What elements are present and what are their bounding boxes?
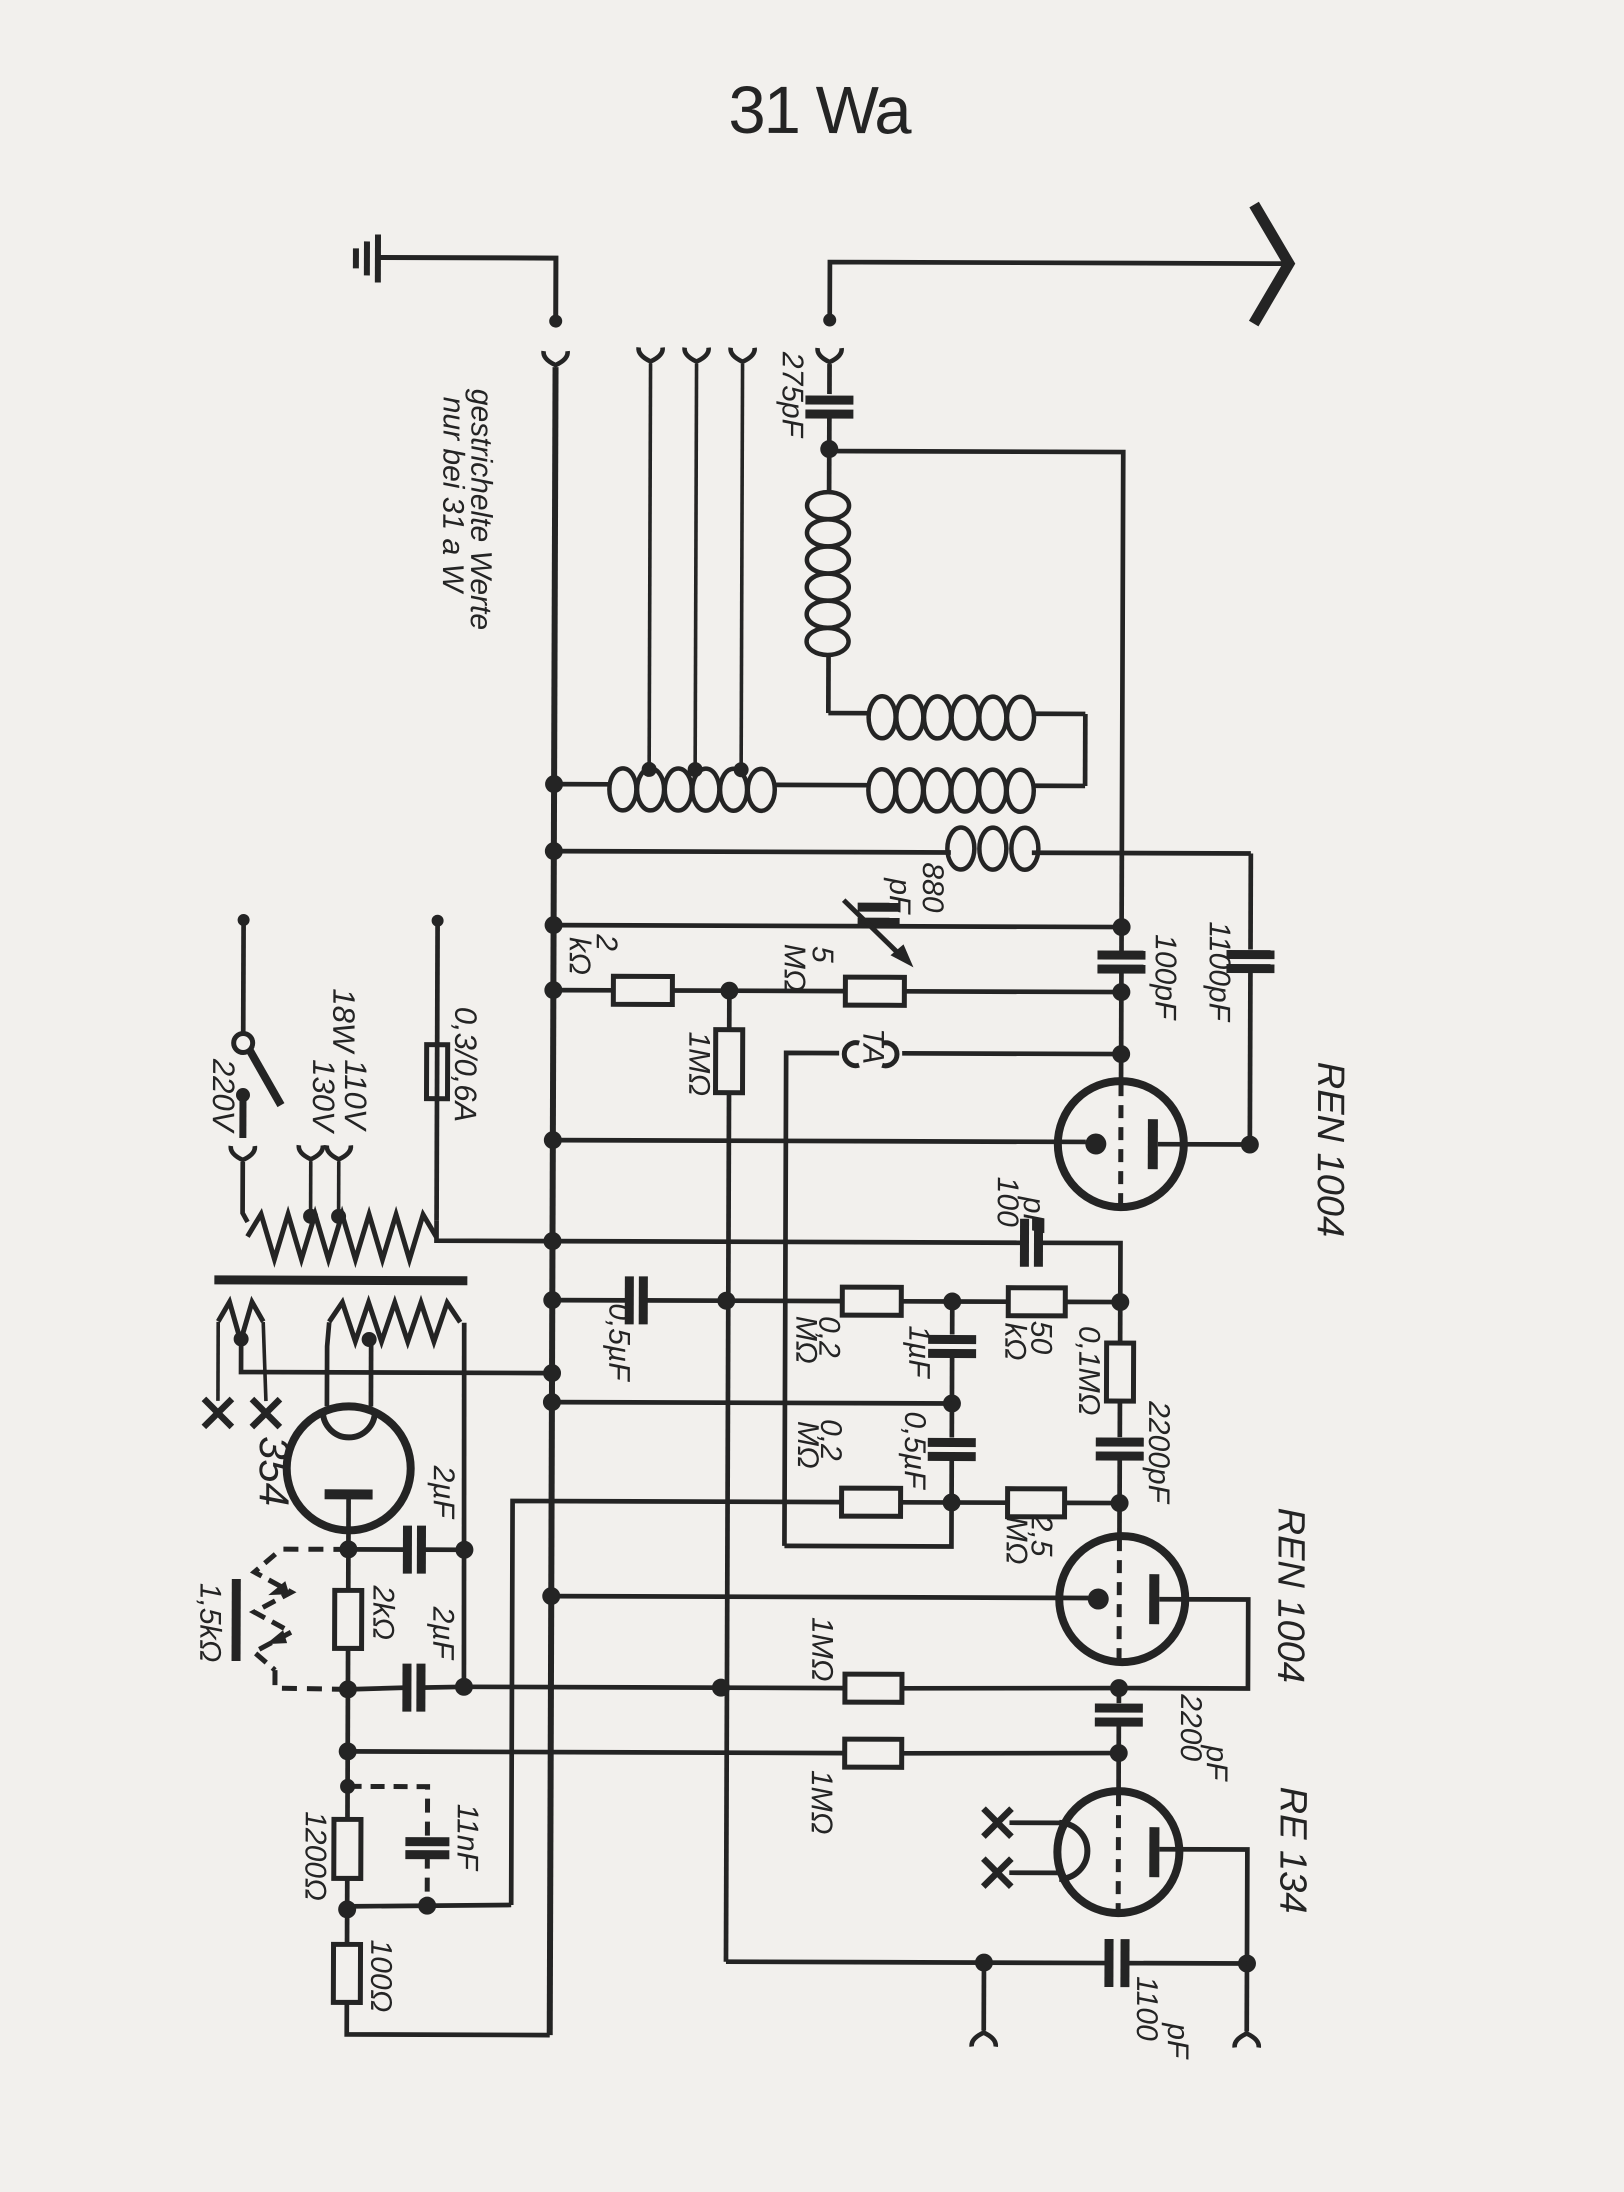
tap nodes on winding A [642, 762, 657, 777]
node bus-primary [543, 1232, 561, 1250]
svg-text:0,5µF: 0,5µF [602, 1303, 635, 1382]
node 11nF dashed tap [340, 1779, 355, 1794]
node bias rail row1 [717, 1292, 735, 1310]
svg-text:11nF: 11nF [450, 1804, 483, 1872]
grid dashed line tube V2 [1117, 1538, 1122, 1660]
wire 11nF row to row3 riser [347, 1904, 511, 1907]
node bus-cathode row V1 [544, 1131, 562, 1149]
resistor R 1M to V2 grid node [845, 1674, 902, 1702]
capacitor C 2200pF interstage [1117, 1401, 1122, 1437]
svg-text:1µF: 1µF [902, 1325, 935, 1379]
resistor R 2.5M grid2 leak [1008, 1489, 1065, 1517]
wire HV right end down rail [463, 1323, 465, 1688]
svg-text:pF: pF [1161, 2022, 1194, 2060]
coil L4 winding C [868, 769, 895, 811]
wire 5M to grid line [904, 989, 1121, 994]
svg-text:100pF: 100pF [1148, 934, 1181, 1021]
node divider mid [339, 1680, 357, 1698]
X mark filament a [983, 1809, 1011, 1837]
capacitor C 1uF vertical [950, 1301, 955, 1334]
svg-text:0,3/0,6A: 0,3/0,6A [448, 1007, 483, 1123]
svg-text:RE 134: RE 134 [1271, 1787, 1313, 1914]
grid dashed line tube V1 [1118, 1083, 1123, 1205]
wire 2k to 1M junction [672, 988, 729, 993]
svg-text:1,5kΩ: 1,5kΩ [193, 1583, 226, 1663]
node bus-gridleak row [544, 981, 562, 999]
wire 0.2M to 1uF node [901, 1299, 952, 1304]
wire output row to 1100pF [984, 1960, 1109, 1965]
filament loop tube V3 [1059, 1823, 1087, 1879]
resistor R 1M output grid [845, 1739, 902, 1767]
wire TA riser bottom L [784, 1502, 951, 1547]
wire 1M-c to grid3 [902, 1752, 1119, 1754]
mains switch [238, 914, 250, 926]
svg-text:pF: pF [1200, 1744, 1233, 1782]
wire 100pF to divider corner [1038, 1243, 1120, 1302]
svg-text:MΩ: MΩ [778, 944, 811, 992]
antenna wire to 275pF branch [830, 262, 1283, 320]
transformer primary winding zigzag [247, 1214, 436, 1260]
node antenna-coil junction [820, 440, 838, 458]
resistor R 0.2M row1 [842, 1287, 901, 1315]
svg-text:2µF: 2µF [426, 1606, 459, 1661]
wire cathode row V2 [551, 1596, 1088, 1598]
svg-text:1MΩ: 1MΩ [682, 1032, 715, 1097]
wire divider node to grid3 row [345, 1689, 350, 1751]
grid dashed line tube V3 [1116, 1793, 1121, 1910]
wire to 5M resistor [729, 988, 845, 993]
transformer HV winding zigzag [329, 1302, 460, 1341]
svg-text:MΩ: MΩ [791, 1421, 824, 1469]
svg-text:MΩ: MΩ [789, 1316, 822, 1364]
svg-text:130V: 130V [306, 1059, 341, 1135]
svg-text:100Ω: 100Ω [364, 1939, 397, 2012]
wire TA to grid line [902, 1051, 1121, 1056]
node grid3 bias tap [339, 1742, 357, 1760]
node row3-0.5uF [943, 1493, 961, 1511]
svg-text:1200Ω: 1200Ω [298, 1811, 331, 1901]
wire to 50k [952, 1299, 1008, 1304]
X mark filament b [983, 1859, 1011, 1887]
node bus-winding A [545, 775, 563, 793]
node bus-feedback row [545, 842, 563, 860]
wire 100pF row left [552, 1241, 1024, 1243]
cathode dot tube V1 [1085, 1133, 1106, 1154]
resistor R 1M vertical [727, 991, 732, 1030]
wire heater CT to bus [241, 1339, 552, 1373]
svg-text:880: 880 [916, 862, 949, 912]
svg-text:0,5µF: 0,5µF [898, 1411, 931, 1490]
node grid3 [1110, 1744, 1128, 1762]
svg-text:110V: 110V [338, 1059, 373, 1133]
anode bar tube V1 [1148, 1119, 1158, 1169]
antenna tap terminal hooks [638, 347, 662, 361]
node grid leak junction [1112, 983, 1130, 1001]
anode bar tube V3 [1149, 1827, 1159, 1877]
wire fuse to primary right [434, 1099, 439, 1221]
TA pickup connector [844, 1043, 859, 1066]
node bus-heater CT [543, 1364, 561, 1382]
node row2-1uF [943, 1394, 961, 1412]
antenna connector break [823, 314, 836, 327]
main earth bus wire (vertical) [550, 367, 556, 2035]
wire bias rail corner to output row [726, 1959, 984, 1965]
svg-text:pF: pF [1017, 1196, 1050, 1234]
resistor R 1200 ohm bias [345, 1786, 350, 1819]
node 0.1M top [1111, 1293, 1129, 1311]
wire output terminal right [1244, 1964, 1249, 2032]
wire feedback row right to 1100pF corner [1032, 850, 1251, 855]
wire 50k to 0.1M node [1065, 1300, 1120, 1305]
capacitor C 1100pF output tone [1104, 1939, 1113, 1987]
tube V2 REN1004 AF amplifier [1059, 1536, 1185, 1662]
tube V1 REN1004 detector triode [1058, 1081, 1184, 1207]
wire switch to primary left [243, 1162, 248, 1222]
svg-text:2µF: 2µF [427, 1465, 460, 1520]
coil L2 winding B (secondary top) [828, 711, 868, 716]
svg-text:1100: 1100 [1130, 1976, 1163, 2041]
grid stub tube V2 [1117, 1503, 1122, 1536]
svg-text:220V: 220V [206, 1058, 241, 1135]
resistor R 100 ohm [345, 1909, 350, 1944]
capacitor C 1100pF feedback coupling [1248, 854, 1253, 950]
anode bar tube V2 [1149, 1574, 1159, 1624]
wire 0.5uF to junction [643, 1298, 726, 1303]
node bus-100pF row [543, 1232, 561, 1250]
coil L5 feedback winding 3 loops [947, 827, 974, 869]
resistor R 0.1M vertical [1118, 1302, 1123, 1343]
resistor R 50k [1008, 1288, 1065, 1316]
grid line vertical (tank node) [1119, 853, 1124, 951]
svg-text:TA: TA [856, 1028, 889, 1064]
wire ground to bus corner [378, 257, 556, 319]
filament stub wires V3 [1009, 1820, 1060, 1825]
node output-anode [1238, 1954, 1256, 1972]
wire winding A to winding C [775, 783, 868, 788]
svg-text:354: 354 [251, 1436, 298, 1506]
filament arc tube V4 [323, 1411, 375, 1437]
capacitor C 275pF antenna series [827, 364, 832, 394]
wire 1M down (bias rail) [726, 1093, 729, 1962]
resistor R 2k bias divider [346, 1549, 351, 1590]
capacitor C 100pF grid condenser [1097, 950, 1145, 959]
capacitor C 11nF dashed (31aW only) [347, 1786, 427, 1836]
variable capacitor C 880pF tuning [858, 903, 900, 912]
HV winding tap node [362, 1332, 377, 1347]
wire row3 mid [901, 1500, 1008, 1505]
antenna arrow symbol [1254, 205, 1289, 324]
node bus-880pF row [545, 916, 563, 934]
heater winding small zigzag [218, 1302, 263, 1341]
wire grid3 bias row [347, 1751, 845, 1753]
capacitor C 0.5uF decoupling [625, 1276, 634, 1324]
wire 2.5M to grid2 node [1065, 1501, 1120, 1506]
wire divider continues [345, 1751, 350, 1786]
heater center tap node [234, 1331, 249, 1346]
svg-text:kΩ: kΩ [998, 1323, 1031, 1361]
node grid2 [1111, 1494, 1129, 1512]
wire small winding right to X [263, 1322, 266, 1401]
wire HV tap to rectifier filament [369, 1339, 374, 1406]
node 11nF bottom [418, 1897, 436, 1915]
wire row3 left corner [511, 1501, 841, 1906]
node bus-row2 [543, 1393, 561, 1411]
ground symbol (Erde) [375, 234, 381, 282]
wire anode V1 to 1100pF node [1158, 1142, 1250, 1147]
cathode dot tube V2 [1088, 1588, 1109, 1609]
capacitor C 100pF cathode [1020, 1219, 1029, 1267]
wire 880pF row [554, 925, 1122, 927]
coil L1 vertical antenna winding [827, 449, 832, 492]
svg-text:1MΩ: 1MΩ [805, 1770, 838, 1835]
resistor R 5M grid leak [845, 977, 904, 1005]
node anode V1 - 1100pF [1241, 1135, 1259, 1153]
wire feedback row left [554, 851, 951, 852]
svg-text:pF: pF [883, 877, 916, 915]
wire row1 left to 0.5uF [552, 1298, 629, 1303]
wire small winding left to X [216, 1322, 220, 1401]
X mark rectifier filament b [252, 1399, 280, 1427]
wire primary right to bus [436, 1221, 552, 1241]
potentiometer arrows [268, 1581, 289, 1595]
wire row1 to 0.2M [726, 1298, 842, 1303]
grid stub tube V3 [1116, 1753, 1121, 1793]
node bus-row1 [543, 1291, 561, 1309]
potentiometer slider bar [232, 1579, 241, 1661]
bus connector break (plug) [549, 315, 562, 328]
node output row - terminal [975, 1954, 993, 1972]
tube V4 rectifier 354 [286, 1406, 410, 1530]
wire coil junction to grid line top [828, 451, 1123, 853]
svg-text:0,1MΩ: 0,1MΩ [1072, 1326, 1105, 1416]
wire gridleak row left [553, 988, 613, 993]
output terminal hook right [1235, 2033, 1259, 2047]
primary tap 130V [303, 1209, 318, 1224]
wire HV left end to rectifier filament [327, 1322, 329, 1406]
svg-text:275pF: 275pF [775, 351, 808, 439]
wire anode V3 to output node [1159, 1849, 1247, 1963]
output terminal hook left [972, 2033, 996, 2047]
node B+ tap [338, 1900, 356, 1918]
wire 1100pF to anode node [1123, 1961, 1247, 1966]
svg-text:2200pF: 2200pF [1142, 1400, 1175, 1505]
wire 1M-b to 2200 top node [902, 1687, 1119, 1689]
svg-text:31 Wa: 31 Wa [728, 73, 912, 149]
wire row2 [552, 1402, 952, 1403]
svg-text:MΩ: MΩ [1000, 1517, 1033, 1565]
wire TA riser [784, 1053, 839, 1546]
fuse 0.3/0.6A [432, 915, 444, 927]
svg-text:2kΩ: 2kΩ [366, 1584, 399, 1640]
svg-text:nur bei 31 a W: nur bei 31 a W [436, 397, 470, 595]
svg-text:1100pF: 1100pF [1202, 921, 1235, 1022]
capacitor C 0.5uF second [949, 1403, 954, 1437]
capacitor C 2200pF to output grid [1117, 1688, 1122, 1703]
potentiometer 1.5k dashed (31aW only) [275, 1547, 348, 1552]
svg-text:REN 1004: REN 1004 [1309, 1062, 1352, 1237]
switch terminal hook 220V [231, 1146, 255, 1160]
wire output terminal left [981, 1963, 986, 2031]
coil L3 tapped winding A on bus row [554, 782, 609, 787]
svg-text:kΩ: kΩ [563, 937, 596, 975]
wire winding C right end [1034, 783, 1085, 788]
resistor R 2k grid stopper [613, 976, 672, 1004]
tube V3 RE134 output [1057, 1791, 1179, 1913]
anode bar tube V4 [325, 1489, 373, 1499]
node 2200pF-2 top [1110, 1679, 1128, 1697]
node 2uF-2 right [455, 1678, 473, 1696]
primary tap 110V [331, 1209, 346, 1224]
resistor R 0.2M row3 [842, 1488, 901, 1516]
node bias rail-2uF row [712, 1679, 730, 1697]
node TA junction on grid line [1112, 1045, 1130, 1063]
node bus-cathode row V2 [542, 1587, 560, 1605]
svg-text:1MΩ: 1MΩ [805, 1617, 838, 1682]
node 2k-1M junction [720, 982, 738, 1000]
node 1uF top [943, 1292, 961, 1310]
wire cathode row V1 [553, 1140, 1086, 1142]
antenna tap wires to coil taps [649, 363, 650, 769]
svg-text:REN 1004: REN 1004 [1269, 1508, 1312, 1683]
X mark rectifier filament a [204, 1399, 232, 1427]
capacitor C 2uF filter 2 [348, 1687, 407, 1689]
capacitor C 2uF filter 1 [348, 1547, 407, 1552]
transformer core bar [214, 1275, 467, 1285]
wire winding B right end down [1083, 714, 1088, 786]
node 2uF-1 right [455, 1541, 473, 1559]
wire 100ohm to bus bottom corner [347, 2002, 550, 2035]
node rectifier output [339, 1540, 357, 1558]
wire bias row (2uF row) right part [465, 1687, 845, 1688]
wire anode V2 loop to 2200pF node [1119, 1599, 1248, 1688]
node 880pF-grid line [1113, 918, 1131, 936]
anode stem tube V4 [346, 1494, 351, 1549]
svg-text:18W: 18W [326, 988, 361, 1055]
